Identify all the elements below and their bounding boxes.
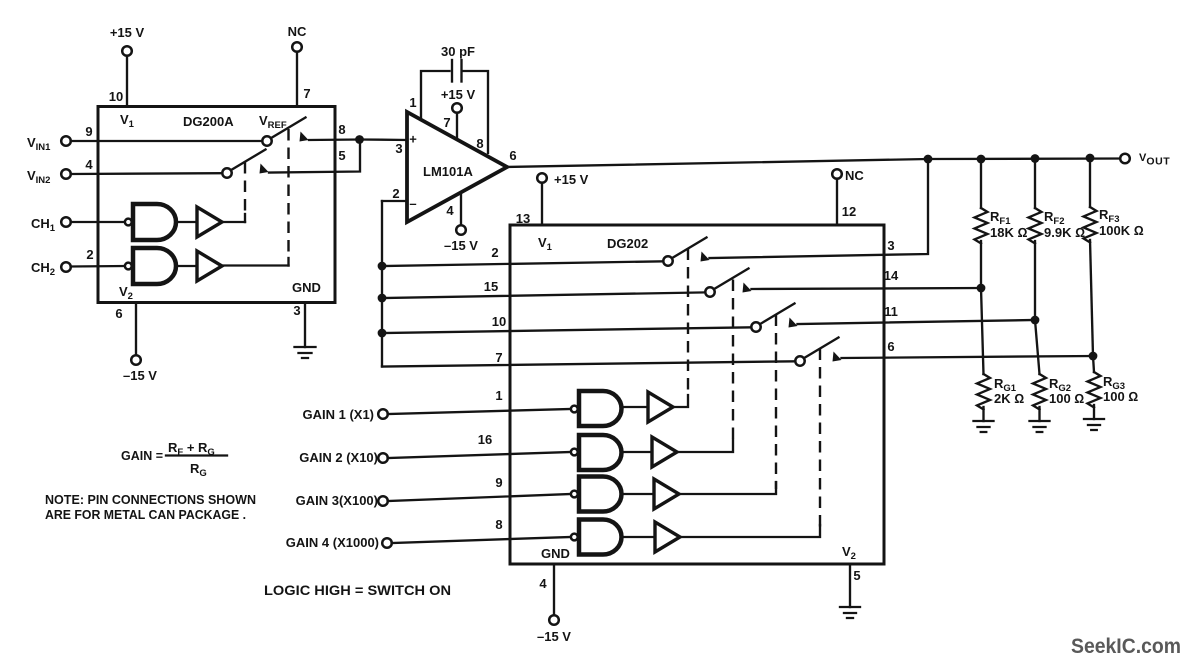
buffer DG202 row 2 bbox=[652, 437, 677, 467]
svg-text:1: 1 bbox=[409, 95, 416, 110]
svg-text:2K Ω: 2K Ω bbox=[994, 391, 1024, 406]
svg-text:+: + bbox=[409, 132, 417, 147]
svg-text:4: 4 bbox=[539, 576, 547, 591]
AND gate DG202 row 4 bbox=[579, 520, 622, 555]
ground pin 3 of DG200A bbox=[304, 303, 306, 348]
svg-text:9.9K Ω: 9.9K Ω bbox=[1044, 225, 1085, 240]
svg-text:6: 6 bbox=[887, 339, 894, 354]
op-amp U2 LM101A bbox=[407, 112, 507, 222]
svg-text:+15 V: +15 V bbox=[110, 25, 145, 40]
control dashed line S2 (from CH1 logic) bbox=[244, 162, 246, 214]
resistor RF2 9.9K bbox=[1034, 159, 1036, 209]
resistor RG2 100 bbox=[1035, 320, 1040, 374]
svg-text:11: 11 bbox=[884, 304, 898, 319]
svg-text:12: 12 bbox=[842, 204, 856, 219]
switch SW4 bbox=[804, 338, 839, 359]
svg-text:5: 5 bbox=[853, 568, 860, 583]
svg-text:10: 10 bbox=[109, 89, 123, 104]
svg-text:3: 3 bbox=[887, 238, 894, 253]
wire pin 6 out to RF3/RG3 node bbox=[842, 356, 1094, 358]
resistor RG3 100 bbox=[1093, 356, 1094, 372]
buffer DG202 row 4 bbox=[655, 522, 680, 552]
svg-text:+15 V: +15 V bbox=[441, 87, 476, 102]
wire pin 3 out to feedback node bbox=[710, 159, 929, 258]
wire G2 to A2 bbox=[176, 265, 197, 267]
wire gain 1 bbox=[388, 409, 571, 414]
AND gate DG202 row 2 bbox=[579, 435, 622, 470]
svg-text:GAIN 3(X100): GAIN 3(X100) bbox=[296, 493, 378, 508]
wire pin 7 bbox=[382, 361, 796, 366]
svg-text:NC: NC bbox=[845, 168, 864, 183]
svg-text:ARE FOR METAL CAN PACKAGE .: ARE FOR METAL CAN PACKAGE . bbox=[45, 507, 246, 522]
switch SW3 bbox=[760, 304, 795, 325]
resistor RG1 2K bbox=[981, 288, 984, 374]
svg-text:NC: NC bbox=[288, 24, 307, 39]
VOUT terminal bbox=[1120, 154, 1130, 164]
svg-text:16: 16 bbox=[478, 432, 492, 447]
wire G2 out bbox=[222, 264, 289, 266]
svg-text:7: 7 bbox=[443, 115, 450, 130]
wire buffer 3 out bbox=[679, 482, 776, 494]
buffer A1 bbox=[197, 207, 222, 237]
op-amp -15 V terminal pin 4 bbox=[460, 193, 462, 225]
buffer DG202 row 3 bbox=[654, 479, 679, 509]
wire gate 3 to buffer bbox=[622, 493, 654, 495]
buffer A2 bbox=[197, 251, 222, 281]
svg-text:3: 3 bbox=[293, 303, 300, 318]
svg-text:6: 6 bbox=[115, 306, 122, 321]
wire pin 15 bbox=[378, 294, 387, 303]
svg-text:18K Ω: 18K Ω bbox=[990, 225, 1027, 240]
wire G1 to A1 bbox=[176, 221, 197, 223]
control dashed SW4 bbox=[819, 349, 821, 532]
svg-text:+15 V: +15 V bbox=[554, 172, 589, 187]
inverting feedback bus bbox=[381, 201, 383, 367]
svg-text:100K Ω: 100K Ω bbox=[1099, 223, 1144, 238]
+15 V terminal pin 13 bbox=[537, 173, 547, 183]
AND gate DG202 row 3 bbox=[579, 477, 622, 512]
svg-text:30 pF: 30 pF bbox=[441, 44, 475, 59]
wire gain 4 bbox=[392, 537, 571, 543]
wire gain 2 bbox=[388, 452, 571, 458]
svg-text:15: 15 bbox=[484, 279, 498, 294]
svg-text:4: 4 bbox=[85, 157, 93, 172]
svg-text:3: 3 bbox=[395, 141, 402, 156]
svg-text:GND: GND bbox=[292, 280, 321, 295]
svg-text:SeekIC.com: SeekIC.com bbox=[1071, 635, 1181, 658]
NC terminal pin 12 bbox=[832, 169, 842, 179]
svg-text:9: 9 bbox=[495, 475, 502, 490]
IC U3 DG202 body bbox=[510, 225, 884, 564]
switch S1 (VIN1) bbox=[271, 118, 306, 139]
svg-text:9: 9 bbox=[85, 124, 92, 139]
svg-text:100 Ω: 100 Ω bbox=[1103, 389, 1138, 404]
AND gate G2 bbox=[133, 248, 176, 284]
wire pin10 bbox=[126, 56, 128, 107]
wire G1 out bbox=[222, 221, 245, 223]
wire gate 1 to buffer bbox=[622, 406, 648, 408]
control dashed SW1 bbox=[687, 249, 689, 391]
wire buffer 2 out bbox=[677, 440, 733, 452]
switch SW1 bbox=[672, 238, 707, 259]
svg-text:8: 8 bbox=[495, 517, 502, 532]
wire +input bbox=[360, 138, 408, 141]
svg-text:LM101A: LM101A bbox=[423, 164, 473, 179]
wire buffer 1 out bbox=[673, 395, 688, 407]
svg-text:13: 13 bbox=[516, 211, 530, 226]
svg-text:8: 8 bbox=[476, 136, 483, 151]
svg-text:–: – bbox=[409, 196, 416, 211]
wire pin 8 bbox=[309, 138, 360, 141]
svg-text:10: 10 bbox=[492, 314, 506, 329]
wire buffer 4 out bbox=[680, 525, 820, 537]
ground RG2 bbox=[1030, 421, 1050, 432]
svg-text:1: 1 bbox=[495, 388, 502, 403]
svg-text:7: 7 bbox=[303, 86, 310, 101]
AND gate DG202 row 1 bbox=[579, 391, 622, 426]
wire CH2 bbox=[71, 265, 125, 268]
svg-text:7: 7 bbox=[495, 350, 502, 365]
wire pin 5 bbox=[269, 140, 360, 173]
wire VIN2 to switch bbox=[71, 172, 223, 175]
junction dots on output wire bbox=[924, 155, 933, 164]
-15 V terminal pin 4 of DG202 bbox=[553, 564, 555, 615]
wire gain 3 bbox=[388, 494, 571, 501]
control dashed SW2 bbox=[732, 280, 734, 445]
svg-text:LOGIC HIGH = SWITCH ON: LOGIC HIGH = SWITCH ON bbox=[264, 582, 451, 598]
AND gate G1 bbox=[133, 204, 176, 240]
control dashed SW3 bbox=[775, 315, 777, 490]
buffer DG202 row 1 bbox=[648, 392, 673, 422]
ground RG3 bbox=[1084, 419, 1104, 430]
svg-text:2: 2 bbox=[392, 186, 399, 201]
switch SW2 bbox=[714, 269, 749, 290]
control dashed line S1 (from CH2 logic) bbox=[287, 129, 289, 258]
svg-text:8: 8 bbox=[338, 122, 345, 137]
svg-text:5: 5 bbox=[338, 148, 345, 163]
svg-text:–15 V: –15 V bbox=[123, 368, 157, 383]
svg-text:DG202: DG202 bbox=[607, 236, 648, 251]
wire VIN1 to switch bbox=[71, 140, 263, 142]
resistor RF3 100K bbox=[1089, 158, 1091, 207]
wire pin 14 out to RF1/RG1 node bbox=[752, 288, 982, 289]
svg-text:6: 6 bbox=[509, 148, 516, 163]
svg-text:DG200A: DG200A bbox=[183, 114, 234, 129]
wire gate 4 to buffer bbox=[622, 536, 655, 538]
svg-text:GND: GND bbox=[541, 546, 570, 561]
IC U1 DG200A body bbox=[98, 107, 335, 303]
switch S2 (VIN2) bbox=[231, 150, 266, 171]
wire pin7 bbox=[296, 52, 298, 107]
svg-text:–15 V: –15 V bbox=[444, 238, 478, 253]
wire pin 2 (from op-amp -input bus) bbox=[378, 262, 387, 271]
wire pin 10 bbox=[378, 329, 387, 338]
wire gate 2 to buffer bbox=[622, 451, 652, 453]
svg-text:2: 2 bbox=[86, 247, 93, 262]
ground pin 5 of DG202 bbox=[849, 564, 851, 607]
junction node pins 8/5 bbox=[355, 135, 364, 144]
svg-text:GAIN 1 (X1): GAIN 1 (X1) bbox=[302, 407, 374, 422]
ground RG1 bbox=[974, 421, 994, 432]
svg-text:GAIN =: GAIN = bbox=[121, 448, 163, 463]
svg-text:100 Ω: 100 Ω bbox=[1049, 391, 1084, 406]
svg-text:GAIN 4 (X1000): GAIN 4 (X1000) bbox=[286, 535, 379, 550]
wire CH1 bbox=[71, 221, 125, 223]
wire -input bbox=[382, 200, 407, 202]
svg-text:4: 4 bbox=[446, 203, 454, 218]
svg-text:–15 V: –15 V bbox=[537, 629, 571, 644]
svg-text:14: 14 bbox=[884, 268, 899, 283]
svg-text:NOTE: PIN CONNECTIONS SHOWN: NOTE: PIN CONNECTIONS SHOWN bbox=[45, 492, 256, 507]
resistor RF1 18K bbox=[980, 159, 982, 208]
wire pin 11 out to RF2/RG2 node bbox=[798, 320, 1036, 324]
svg-text:2: 2 bbox=[491, 245, 498, 260]
-15 V supply terminal pin 6 bbox=[135, 303, 137, 356]
svg-text:GAIN 2 (X10): GAIN 2 (X10) bbox=[299, 450, 378, 465]
